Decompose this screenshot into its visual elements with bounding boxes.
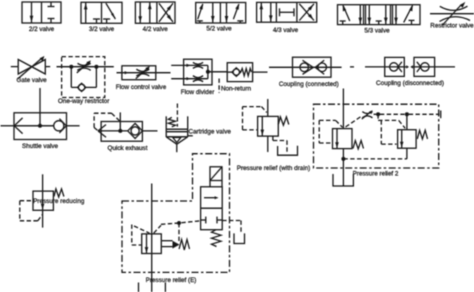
venturi arc lower [440, 17, 471, 22]
quick exhaust valve [94, 112, 157, 152]
poppet cone [173, 138, 181, 143]
flow path arrow up [260, 2, 262, 22]
cell divider [41, 2, 43, 23]
svg-text:Cartridge valve: Cartridge valve [189, 129, 232, 136]
exhaust seat line [98, 125, 106, 131]
pressure relief 2 assembly [314, 89, 441, 187]
valve body [227, 63, 252, 82]
solenoid slash [210, 167, 222, 181]
pilot line bottom [343, 158, 407, 160]
pilot line [378, 119, 399, 121]
cell divider [219, 3, 221, 24]
relief valve body [142, 234, 162, 254]
flow path arrow down [395, 5, 397, 25]
spring [179, 240, 189, 251]
inlet line upper [171, 64, 208, 66]
valve body 2-position [201, 187, 223, 230]
cone side [166, 137, 177, 144]
adjustment arrow [77, 62, 89, 73]
drain line [222, 220, 241, 222]
cell divider [363, 5, 365, 25]
pilot line [20, 220, 38, 222]
connector arrow left [315, 66, 317, 69]
spring [168, 117, 175, 127]
seat line [398, 62, 402, 67]
pilot line [381, 143, 396, 145]
flow control valve [116, 66, 171, 91]
pilot line [242, 107, 244, 130]
blocked port [199, 21, 201, 23]
svg-text:Quick exhaust: Quick exhaust [108, 145, 148, 152]
restrictor arcs upper path [193, 62, 203, 64]
spring [417, 130, 427, 139]
adjustment arrow [442, 5, 462, 26]
junction dot left [69, 65, 73, 69]
flow path arrow up [149, 2, 151, 23]
assembly boundary [122, 154, 230, 273]
cartridge valve [166, 104, 231, 153]
inlet wire top [267, 99, 269, 116]
valve body 2/2 [22, 2, 61, 23]
internal flow line [98, 130, 128, 132]
spring [241, 69, 252, 76]
non-return valve [219, 63, 267, 93]
tank wall left [138, 283, 140, 292]
pilot line [93, 113, 95, 127]
svg-text:Pressure relief (E): Pressure relief (E) [146, 277, 197, 284]
flow divider [171, 59, 227, 96]
inlet stub [227, 71, 232, 73]
check valve ball [131, 127, 139, 135]
outlet wire to tank [342, 149, 344, 186]
adjustment arrow [18, 58, 42, 79]
pilot line [374, 113, 377, 115]
internal flow line [14, 125, 54, 127]
spring link upper [161, 240, 172, 242]
pressure relief valve (with drain) [237, 99, 311, 172]
bypass wire bottom [71, 86, 77, 88]
coupling (disconnected) [350, 57, 455, 87]
restrictor arc lower [136, 74, 149, 76]
gate valve bowtie [18, 60, 45, 75]
pilot line [134, 226, 150, 233]
solenoid link [209, 181, 211, 187]
adjustment arrow [362, 111, 371, 119]
pilot line [380, 113, 405, 115]
stub wire [413, 66, 414, 68]
valve body 5/3 [338, 5, 421, 25]
pilot line [261, 107, 266, 113]
junction dot [376, 112, 380, 116]
svg-text:Flow control valve: Flow control valve [116, 84, 167, 91]
blocked port [239, 21, 241, 23]
relief valve body [333, 129, 353, 149]
wire [406, 148, 408, 159]
pilot line [38, 215, 43, 221]
svg-text:Shuttle valve: Shuttle valve [22, 143, 59, 150]
stub wire [404, 66, 406, 68]
svg-text:Gate valve: Gate valve [17, 77, 48, 84]
blocked port bar [216, 217, 218, 224]
flow line [430, 13, 474, 15]
outlet wire top [39, 88, 41, 126]
closed centre path [280, 11, 295, 13]
restrictor valve (top right) [430, 2, 474, 30]
shuttle ball [54, 121, 64, 131]
seat line [59, 126, 66, 133]
junction dot [118, 129, 122, 133]
svg-text:Pressure relief 2: Pressure relief 2 [353, 170, 399, 177]
main flow wire [151, 184, 153, 292]
seat line [315, 60, 324, 67]
blocked port top [50, 2, 52, 7]
svg-text:One-way restrictor: One-way restrictor [58, 98, 109, 105]
svg-text:4/3 valve: 4/3 valve [273, 27, 299, 34]
cell divider [101, 2, 103, 23]
outlet wire [142, 130, 157, 132]
valve V2 3/2 valve [81, 2, 122, 33]
flow path arrow down [212, 3, 214, 24]
inlet line lower [171, 78, 208, 80]
drain line [273, 140, 287, 142]
poppet top line [166, 131, 188, 133]
pilot line [377, 114, 379, 120]
bypass wire right [95, 67, 97, 88]
check valve ball [233, 69, 239, 75]
port line left [11, 66, 18, 68]
restrictor arc lower [362, 116, 372, 118]
drain stub [272, 136, 274, 140]
valve body [258, 116, 279, 136]
cell divider [296, 2, 298, 22]
diagonal flow path [198, 4, 203, 19]
check ball [421, 63, 429, 71]
svg-text:Coupling (disconnected): Coupling (disconnected) [376, 80, 444, 87]
valve V6 5/3 valve [338, 5, 421, 35]
sleeve wall right [187, 116, 189, 137]
restrictor arcs lower path [193, 76, 203, 78]
pilot line [380, 120, 382, 144]
restrictor arc upper [362, 112, 372, 114]
flow path arrow down [261, 116, 263, 136]
pilot line [399, 120, 406, 128]
inlet wire [365, 66, 385, 68]
valve body [14, 113, 67, 140]
blocked port [96, 19, 98, 23]
junction dot [341, 157, 345, 161]
spring [353, 141, 364, 149]
flow path arrow down [41, 204, 45, 210]
svg-text:Restrictor valve: Restrictor valve [430, 23, 474, 30]
valve body 4/3 [257, 2, 317, 22]
exhaust seat line [98, 131, 106, 137]
cell divider [390, 5, 392, 25]
drain line [286, 141, 288, 153]
flow path arrow down [385, 5, 387, 25]
flow line [385, 66, 405, 68]
one-way restrictor [57, 57, 114, 106]
pilot line [176, 104, 178, 127]
valve body [101, 122, 142, 142]
valve V1 2/2 valve [22, 2, 61, 33]
check ball [390, 63, 398, 71]
blocked port right [217, 219, 222, 221]
flow path arrow down [146, 234, 148, 254]
svg-text:Pressure relief (with drain): Pressure relief (with drain) [237, 165, 311, 172]
flow path arrow up [85, 2, 87, 23]
check ball left [300, 63, 309, 72]
valve body 4/2 [135, 2, 175, 23]
return spring [212, 230, 222, 247]
restrictor arc upper [78, 63, 91, 65]
blocked port bottom [50, 19, 52, 24]
spring link lower [161, 246, 172, 248]
coupling half right [414, 57, 435, 76]
check valve ball [78, 84, 84, 90]
svg-text:Non-return: Non-return [221, 85, 252, 92]
flow path arrow down [270, 2, 272, 22]
outlet wire [208, 71, 227, 73]
restrictor arc lower [77, 68, 90, 70]
pilot line [318, 120, 320, 143]
inlet wire left [1, 125, 15, 127]
pilot line [161, 221, 201, 225]
pilot line [243, 106, 262, 108]
valve V4 5/2 valve [196, 3, 246, 33]
pressure reducing valve [20, 174, 85, 227]
pilot line [319, 142, 332, 144]
spring [278, 117, 289, 125]
spring arrow [173, 241, 180, 249]
shuttle valve [1, 88, 80, 150]
venturi arc upper [440, 6, 468, 10]
coupling (connected) [269, 57, 342, 88]
diagonal flow path [404, 5, 413, 22]
blocked port left [201, 219, 206, 221]
pilot line [346, 117, 362, 128]
cone side [177, 137, 188, 144]
main flow line [57, 66, 114, 68]
sleeve wall left [165, 116, 167, 137]
collector wire [207, 65, 209, 78]
valve V5 4/3 valve [257, 2, 317, 34]
valve V3 4/2 valve [135, 2, 175, 33]
pilot line [178, 223, 180, 241]
outlet wire [435, 66, 455, 68]
flow line [117, 72, 171, 74]
junction dot [177, 221, 181, 225]
blocked port [342, 21, 344, 25]
coupling body [293, 57, 332, 77]
valve body [184, 59, 212, 85]
pilot line [131, 225, 133, 246]
coupling nipple arrow [410, 65, 413, 68]
pilot line [409, 113, 440, 115]
svg-text:4/2 valve: 4/2 valve [143, 26, 169, 33]
gate valve [11, 56, 50, 84]
cell divider [275, 2, 277, 22]
pilot line stub [218, 79, 220, 93]
pilot line [94, 128, 97, 131]
flow path arrow down [401, 130, 403, 149]
blocked port [106, 19, 108, 23]
coupling nipple arrow [406, 65, 409, 68]
flow path arrow down [139, 2, 141, 23]
cell divider [156, 2, 158, 23]
port wire top [119, 112, 121, 130]
seat line [303, 60, 314, 67]
drain line [240, 221, 242, 233]
svg-text:Pressure reducing: Pressure reducing [33, 198, 85, 205]
flow path arrow down [31, 2, 33, 23]
svg-text:Flow divider: Flow divider [181, 89, 215, 96]
valve body [33, 191, 53, 210]
cell divider [201, 207, 223, 209]
junction dot [38, 124, 42, 128]
valve body 5/2 [196, 3, 246, 24]
crossed flow path [159, 3, 173, 22]
seat line [417, 67, 421, 72]
seat line [166, 136, 188, 138]
flow path arrow down [226, 3, 228, 24]
pressure relief (E) assembly [122, 154, 245, 292]
diagonal flow path [233, 4, 239, 19]
check valve seat [232, 68, 241, 77]
adjustment arrow [136, 68, 148, 79]
svg-text:3/2 valve: 3/2 valve [89, 26, 115, 33]
flow line [414, 66, 435, 68]
pilot line [19, 201, 21, 221]
enclosure dashed box [62, 57, 105, 98]
poppet top line [166, 128, 188, 130]
restrictor arc upper [136, 69, 149, 71]
pilot line [319, 119, 335, 121]
pilot line [94, 112, 111, 114]
flow path arrow down [368, 5, 370, 25]
main flow wire [42, 174, 44, 227]
pilot line [243, 129, 258, 131]
valve body [122, 66, 156, 80]
bypass wire bottom [86, 86, 97, 88]
assembly boundary [314, 104, 439, 168]
pilot line [112, 113, 121, 121]
relief valve body [398, 130, 417, 149]
svg-text:Coupling (connected): Coupling (connected) [279, 81, 339, 88]
svg-text:5/2 valve: 5/2 valve [206, 26, 232, 33]
solenoid box [210, 167, 222, 181]
drain tank [278, 146, 298, 155]
tank [333, 174, 353, 186]
check ball right [318, 63, 327, 72]
wire [406, 114, 408, 129]
flow path arrow right [204, 197, 217, 199]
flow direction arrow [125, 71, 129, 74]
seat line [14, 126, 22, 134]
pilot line [154, 225, 161, 233]
pilot line [132, 244, 142, 246]
pilot line [336, 120, 343, 127]
seat line [303, 67, 314, 74]
crossed flow path [299, 4, 314, 21]
coupling half left [385, 57, 405, 76]
spring [54, 189, 64, 197]
diagonal flow path [343, 5, 350, 21]
connector arrow right [312, 66, 314, 69]
tank wall right [164, 283, 166, 292]
inlet wire right [67, 125, 80, 127]
inlet wire [342, 89, 344, 129]
outlet wire bottom [267, 136, 269, 152]
diagonal flow path [106, 3, 116, 19]
solenoid link [221, 181, 223, 187]
drain tank [234, 233, 245, 243]
svg-text:2/2 valve: 2/2 valve [29, 26, 55, 33]
flow path arrow down [336, 129, 338, 149]
blocked port [411, 20, 413, 24]
bypass wire left [70, 67, 72, 88]
check valve seat [128, 123, 143, 138]
crossed flow path [159, 3, 173, 22]
seat line [315, 67, 324, 74]
junction dot [206, 70, 210, 74]
crossed flow path [299, 4, 314, 21]
port wire bottom [176, 144, 178, 152]
blocked port [378, 21, 380, 25]
blocked port bar [205, 217, 207, 224]
pilot line [20, 200, 33, 202]
line stub [350, 66, 354, 68]
junction dot right [94, 65, 98, 69]
outlet wire [253, 71, 268, 73]
seat line [14, 118, 22, 126]
flow path arrow down [359, 5, 361, 25]
seat line [398, 67, 402, 72]
plugged port [440, 111, 442, 119]
check valve seat [77, 83, 85, 91]
seat line [417, 62, 421, 67]
seat line [59, 119, 66, 126]
junction dot [405, 112, 409, 116]
flow line [269, 66, 342, 68]
port line right [45, 66, 50, 68]
valve body 3/2 [81, 2, 122, 23]
svg-text:5/3 valve: 5/3 valve [364, 27, 390, 34]
port stub right [188, 135, 193, 137]
